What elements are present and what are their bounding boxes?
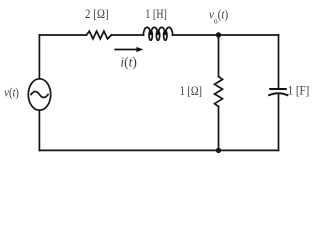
source V1 circle	[28, 79, 50, 110]
wire inductor to top-right corner	[173, 34, 279, 36]
wire left rail lower	[38, 110, 40, 150]
inductor L1 loop 2	[156, 31, 159, 41]
capacitor C1 curved plate	[268, 93, 288, 95]
wire middle rail lower	[218, 107, 220, 151]
wire top-left segment	[39, 34, 86, 36]
wire right rail lower	[278, 94, 280, 151]
inductor L1 1[H] arcs	[143, 27, 172, 35]
resistor R1 2[ohm]	[87, 31, 112, 39]
inductor L1 loop 3	[164, 31, 167, 41]
svg-text:1 [F]: 1 [F]	[288, 83, 310, 98]
wire middle rail upper	[218, 35, 220, 77]
inductor L1 loop 1	[149, 31, 152, 41]
svg-text:v(t): v(t)	[4, 85, 19, 100]
svg-text:1 [H]: 1 [H]	[145, 6, 167, 21]
svg-text:i(t): i(t)	[120, 55, 137, 70]
wire between resistor and inductor	[111, 34, 143, 36]
current arrow i(t)	[115, 49, 138, 51]
node top junction dot	[216, 32, 221, 37]
wire left rail upper	[38, 35, 40, 79]
current arrow head	[136, 47, 143, 52]
resistor R2 1[ohm] vertical	[215, 77, 223, 107]
wire right rail upper	[278, 35, 280, 89]
source V1 sine	[31, 92, 48, 98]
capacitor C1 top plate	[269, 88, 287, 90]
node bottom junction dot	[216, 148, 221, 153]
wire bottom rail	[39, 149, 278, 151]
svg-text:2 [Ω]: 2 [Ω]	[85, 6, 109, 21]
svg-text:1 [Ω]: 1 [Ω]	[180, 83, 202, 98]
